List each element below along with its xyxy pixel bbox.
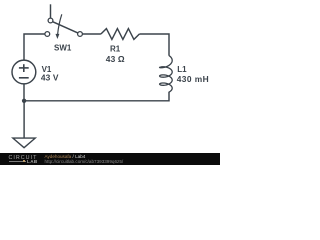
ground — [13, 101, 35, 148]
switch right terminal — [78, 32, 83, 37]
footer logo CircuitLab — [9, 155, 38, 161]
plus mark — [19, 67, 29, 69]
switch top terminal stub — [50, 4, 52, 18]
source circle — [12, 60, 36, 84]
switch lever — [53, 22, 78, 33]
switch left terminal — [45, 32, 50, 37]
minus mark — [19, 77, 29, 79]
inductor L1 — [160, 56, 173, 93]
wire — [82, 33, 101, 35]
svg-text:430 mH: 430 mH — [177, 74, 210, 84]
footer text line 2 — [45, 159, 124, 164]
wire — [24, 92, 169, 101]
wire — [24, 34, 45, 60]
switch SW1 — [45, 4, 83, 39]
resistor R1 — [101, 29, 139, 40]
switch actuation arrow — [58, 14, 62, 34]
voltage source V1 — [12, 60, 36, 84]
wire — [23, 84, 25, 101]
svg-text:SW1: SW1 — [54, 44, 72, 53]
switch top terminal — [48, 18, 53, 23]
svg-text:L1: L1 — [177, 65, 187, 74]
svg-text:43 V: 43 V — [41, 72, 59, 82]
svg-text:43 Ω: 43 Ω — [106, 54, 125, 64]
node junction — [22, 99, 26, 103]
wire — [139, 34, 169, 56]
footer bar — [0, 153, 220, 166]
svg-text:R1: R1 — [110, 45, 121, 54]
footer text line 1 — [45, 154, 86, 159]
